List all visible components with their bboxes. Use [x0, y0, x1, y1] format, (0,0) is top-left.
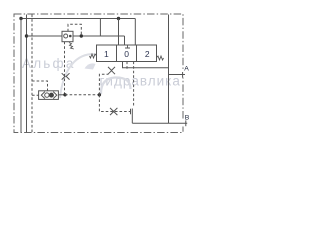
pilot branch (dashed) to CV2 top: [32, 81, 48, 91]
dashed drop from junction2 to coupling X3: [99, 95, 130, 112]
wire: T horizontal to check valve: [27, 35, 63, 37]
svg-text:A: A: [184, 66, 189, 73]
svg-text:1: 1: [104, 49, 109, 59]
check valve CV1 ball: [64, 34, 68, 38]
V1 divider 0/2: [136, 45, 138, 62]
port A terminal tick: [182, 72, 184, 78]
node: P junction above valve: [117, 17, 120, 20]
boundary gap at port A: [182, 71, 185, 78]
V1 divider 1/0: [116, 45, 118, 62]
check valve CV1 seat dot: [69, 35, 72, 38]
V1 right spring: [157, 56, 164, 60]
node: drain junction 2: [98, 93, 101, 96]
svg-text:0: 0: [124, 49, 129, 59]
port B terminal tick: [185, 120, 187, 126]
dashed stub below valve centre box: [126, 62, 128, 70]
plugged coupling X3: [110, 108, 117, 115]
svg-text:B: B: [185, 114, 190, 121]
V1 centre closed-port mark: [125, 45, 130, 48]
plugged coupling X2 below valve: [108, 67, 115, 74]
V1 left spring: [90, 54, 97, 58]
wire: P vertical line to bottom: [20, 19, 22, 133]
CV2 left seat chevron: [41, 92, 45, 99]
node: drain junction 1: [63, 93, 66, 96]
watermark logo wedge: [85, 63, 96, 69]
drain manifold dashed vertical: [31, 15, 33, 133]
wire: P corner drop to valve: [134, 19, 136, 46]
wire: CV1 outlet horizontal: [73, 35, 125, 37]
CV2 ball (filled): [49, 93, 54, 98]
wire: valve to A-line: [123, 62, 169, 68]
wire: port B horizontal: [132, 122, 187, 124]
svg-text:2: 2: [145, 49, 150, 59]
watermark logo swirl: [101, 77, 131, 94]
feed branch to CV2 inlet: [32, 94, 39, 96]
wire: branch from P junction down to valve: [118, 19, 120, 46]
dashed drop from valve toward B: [133, 62, 135, 107]
terminal tick of X3 line: [130, 109, 132, 114]
check valve CV1 body: [62, 31, 73, 41]
wire: bridge between P line and T line: [99, 19, 101, 37]
drain line (dashed) from CV1 down: [64, 42, 66, 95]
wire: B-line riser: [131, 109, 133, 124]
node: T junction: [25, 34, 28, 37]
pilot line (dashed) over CV1: [68, 24, 81, 36]
node: pilot tap junction: [80, 34, 83, 37]
wire: corner drop to valve from CV1 line: [124, 36, 126, 45]
dashed link junction1 to junction2: [65, 94, 99, 96]
wire: CV2 outlet: [59, 94, 66, 96]
boundary gap at port B: [182, 120, 185, 127]
plugged coupling X1 on drain line: [62, 73, 70, 79]
spring of CV1: [69, 43, 74, 50]
wire: P supply horizontal: [21, 18, 135, 20]
watermark logo swoosh tail: [60, 54, 103, 98]
wire: T vertical line to bottom: [26, 15, 28, 133]
dashed riser from junction2 to coupling X2: [99, 74, 108, 95]
svg-text:Альфа: Альфа: [22, 56, 76, 71]
CV2 ball (open): [45, 93, 49, 97]
node: P junction left: [19, 17, 22, 20]
wire: port A stub: [169, 74, 186, 76]
wire: A-line vertical: [168, 15, 170, 124]
directional valve V1 body: [97, 45, 157, 62]
manifold boundary (dash-dot rectangle): [14, 14, 183, 133]
pilot operated check valve CV2 body: [39, 91, 59, 100]
CV2 right seat chevron: [53, 92, 57, 99]
